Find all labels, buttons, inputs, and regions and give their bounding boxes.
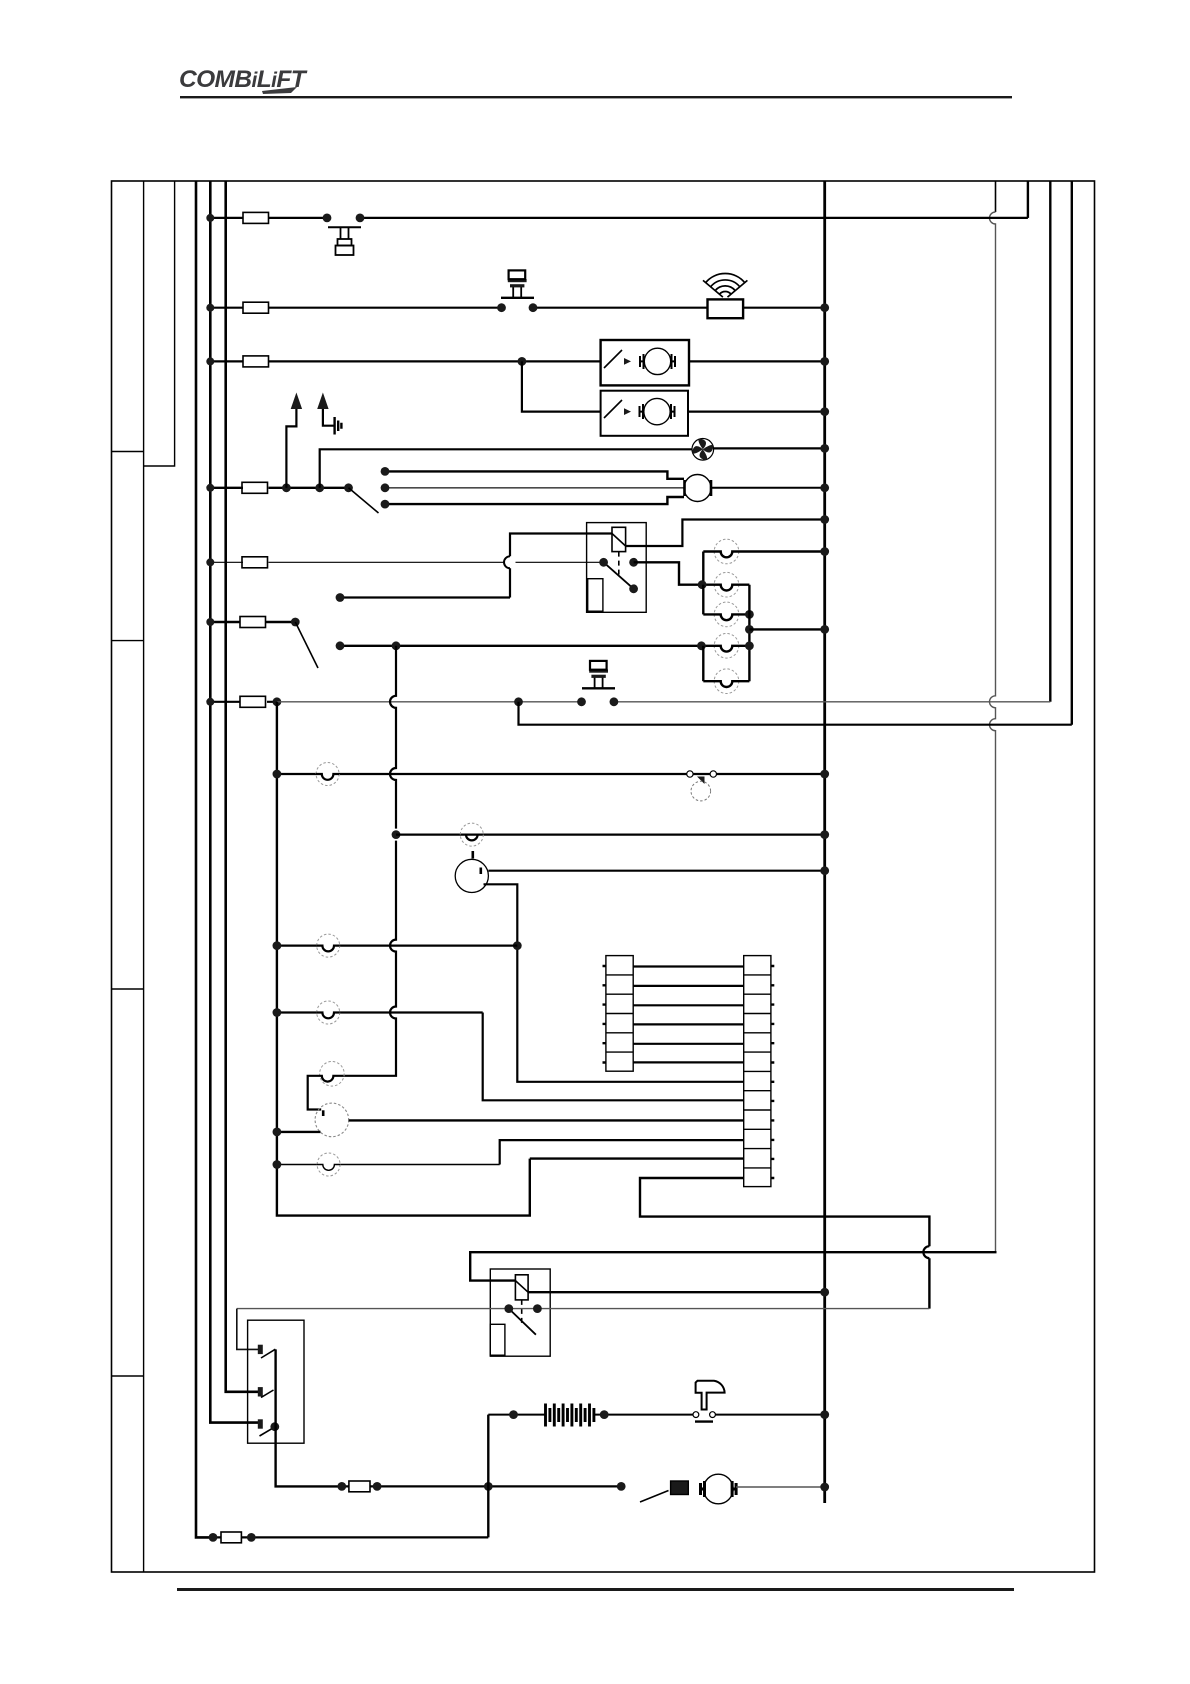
fuse F3 bbox=[243, 356, 269, 367]
wire blower to bus bbox=[712, 487, 825, 489]
node row3-branch bbox=[518, 357, 527, 366]
hop K1 feed over rowF bbox=[504, 556, 510, 568]
main right bus x=824 bbox=[823, 181, 826, 1503]
node M5-bus bbox=[820, 866, 829, 875]
wire row3 y=361 bbox=[210, 360, 824, 362]
node row2-bus-right bbox=[820, 303, 829, 312]
starter motor M6 bbox=[701, 1474, 737, 1504]
node row2-a bbox=[497, 303, 506, 312]
fuse F4 bbox=[242, 482, 268, 493]
node speed1 bbox=[381, 467, 390, 476]
wire glow plug row y=1414 bbox=[488, 1414, 824, 1416]
node K1-com bbox=[599, 558, 608, 567]
blower switch blade rowE bbox=[349, 488, 379, 513]
right riser x=1050 (row H) bbox=[1049, 181, 1051, 702]
wire glow row y=1486 bbox=[342, 1485, 621, 1487]
wire w11 bbox=[530, 1157, 744, 1159]
starter solenoid bbox=[671, 1481, 689, 1495]
node row1-b bbox=[356, 214, 365, 223]
fuse F6 bbox=[240, 617, 266, 628]
node K2-bus bbox=[820, 1288, 829, 1297]
battery feed arrow 1 bbox=[286, 394, 301, 488]
fan M3 bbox=[692, 439, 714, 461]
left margin rung 3 bbox=[112, 988, 144, 990]
node glowplug-b bbox=[600, 1410, 609, 1419]
lamp chain right tie bbox=[748, 585, 750, 682]
gray contact line 1308 bbox=[237, 1308, 930, 1310]
lamp L3 bbox=[703, 602, 749, 627]
node keyswitch-bus bbox=[820, 1410, 829, 1419]
wire row1 y=218 bbox=[210, 217, 1028, 219]
node starter-bus bbox=[820, 1483, 829, 1492]
wire rowH y=702 bbox=[210, 701, 277, 703]
relay K1 coil bbox=[612, 527, 626, 551]
connector X1 right housing bbox=[744, 956, 775, 1187]
wire fan to bus bbox=[714, 447, 825, 449]
relay K2 aux block bbox=[490, 1324, 505, 1355]
node f9-a bbox=[209, 1533, 218, 1542]
wire rowF y=562 (thin) bbox=[210, 561, 603, 563]
relay K1 box bbox=[587, 523, 647, 613]
battery feed arrow 2 with chassis ground bbox=[318, 394, 335, 426]
node starter-a bbox=[617, 1482, 626, 1491]
gray return line x=995 with hops bbox=[995, 181, 997, 212]
wire w12 Z-path bbox=[640, 1178, 929, 1309]
lamp L2 bbox=[702, 572, 749, 597]
relay K1 aux block bbox=[588, 579, 603, 612]
wire rowG y=622 bbox=[210, 621, 295, 623]
wire rowH gray bbox=[277, 701, 1050, 703]
bottom rule bbox=[177, 1588, 1014, 1591]
node L4-right bbox=[745, 641, 754, 650]
node L3-right bbox=[745, 610, 754, 619]
key switch S5 bbox=[693, 1381, 725, 1422]
blower speed line 2 bbox=[385, 487, 684, 489]
lamp L1 bbox=[703, 539, 824, 564]
receiver antenna arcs bbox=[703, 274, 747, 298]
wire rowI y=725 bbox=[519, 702, 1072, 725]
node rowG-a bbox=[291, 618, 300, 627]
node glow-b bbox=[373, 1482, 382, 1491]
node rowE-b bbox=[315, 483, 324, 492]
wire row1013 bbox=[277, 1011, 483, 1013]
node row1132-left bbox=[273, 1128, 282, 1137]
wire row1164 to connector (w10) bbox=[500, 1140, 744, 1164]
wire row 646 bbox=[340, 645, 701, 647]
fuse F2 bbox=[243, 302, 269, 313]
relay K2 dashed link bbox=[521, 1300, 523, 1325]
node blower-bus bbox=[820, 483, 829, 492]
lamp L10 bbox=[316, 1062, 344, 1087]
blower speed line 3 bbox=[385, 497, 684, 504]
wire row774 bbox=[277, 773, 825, 775]
oil pressure sender B1 bbox=[687, 771, 717, 801]
lamp L11 bbox=[317, 1153, 340, 1176]
node row945-left bbox=[273, 941, 282, 950]
wire L1 to L2 left tie bbox=[702, 552, 704, 585]
indicator column x=277 bbox=[277, 702, 530, 1216]
node glowplug-a bbox=[509, 1410, 518, 1419]
wire K2 coil to bus bbox=[528, 1291, 825, 1293]
wire row2 y=308 bbox=[210, 307, 824, 309]
S4 contact 3 bbox=[258, 1419, 275, 1436]
relay K2 coil bbox=[515, 1275, 528, 1300]
left margin rung 1 bbox=[112, 451, 144, 453]
lamp L5 bbox=[703, 669, 749, 694]
node row774-bus bbox=[820, 770, 829, 779]
relay K2 contact blade bbox=[509, 1309, 536, 1335]
lamp L8 bbox=[317, 934, 340, 957]
radio receiver U1 bbox=[708, 299, 744, 318]
push button S3 (plunger up) bbox=[582, 661, 615, 688]
flasher unit E1 bbox=[315, 1103, 349, 1137]
node col394 row835 bbox=[392, 830, 401, 839]
sense column x=394 with hops bbox=[356, 646, 397, 1076]
node rowH-bus bbox=[206, 698, 214, 706]
node chain-bus bbox=[820, 625, 829, 634]
wire starter to bus bbox=[736, 1486, 825, 1488]
node K1-bus bbox=[820, 515, 829, 524]
node L2-left bbox=[698, 580, 707, 589]
node coil-feed start bbox=[336, 593, 345, 602]
wire 1253 feed bbox=[470, 1252, 996, 1280]
node glow-junction bbox=[484, 1482, 493, 1491]
node chain-tap bbox=[745, 625, 754, 634]
wire bottom fuse row y=1537 bbox=[213, 1536, 488, 1538]
node row1-a bbox=[323, 214, 332, 223]
starter switch blade bbox=[640, 1491, 669, 1503]
node row3-bus bbox=[206, 357, 214, 365]
wire 1308 to switch contact 1 bbox=[237, 1309, 259, 1350]
supply bus A x=196 bbox=[196, 181, 213, 1537]
node rowH-c bbox=[577, 697, 586, 706]
node row4-bus-right bbox=[820, 407, 829, 416]
node row2-b bbox=[529, 303, 538, 312]
lamp L7 bbox=[460, 823, 483, 846]
wire row1132 bbox=[277, 1131, 321, 1133]
node speed2 bbox=[381, 483, 390, 492]
wire L4-L5 left tie bbox=[702, 646, 704, 681]
fuse F8 bbox=[349, 1481, 370, 1492]
glow plug element R1 bbox=[546, 1404, 594, 1427]
left margin rung 4 bbox=[112, 1375, 144, 1377]
connector X1 left housing bbox=[603, 956, 634, 1072]
lamp L4 bbox=[701, 634, 749, 659]
node row646-start bbox=[336, 641, 345, 650]
supply bus C x=226 bbox=[226, 181, 259, 1392]
node L1-bus bbox=[820, 547, 829, 556]
node row3-bus-right bbox=[820, 357, 829, 366]
node rowE-c bbox=[344, 483, 353, 492]
wiper motor box M2 bbox=[601, 391, 688, 436]
relay K1 contact blade bbox=[604, 562, 634, 589]
node col517 row945 bbox=[513, 941, 522, 950]
wire M2 to bus bbox=[688, 411, 825, 413]
node row1-bus bbox=[206, 214, 214, 222]
node rowF-bus bbox=[206, 558, 214, 566]
right riser x=1028 (row 1) bbox=[1027, 181, 1029, 218]
switch blade rowG bbox=[295, 622, 318, 668]
lamp L6 bbox=[316, 763, 339, 786]
push button S1 (plunger down) bbox=[328, 227, 361, 255]
fan feed riser bbox=[320, 449, 693, 488]
node row835-bus bbox=[820, 830, 829, 839]
node glow-a bbox=[337, 1482, 346, 1491]
node row1164-left bbox=[273, 1160, 282, 1169]
node L4-left bbox=[697, 641, 706, 650]
node rowH-tap bbox=[514, 697, 523, 706]
wire flasher out (w9) bbox=[349, 1119, 744, 1121]
ground bars bbox=[335, 417, 342, 435]
frame border bbox=[112, 181, 1095, 1572]
node row774-left bbox=[273, 770, 282, 779]
right riser x=1072 (row I) bbox=[1071, 181, 1073, 725]
blower speed line 1 bbox=[385, 471, 684, 478]
fuse F5 bbox=[242, 557, 268, 568]
lamp L9 bbox=[317, 1001, 340, 1024]
hop w12 over wire1253 bbox=[923, 1246, 929, 1258]
wire row835 bbox=[396, 833, 825, 835]
wiper motor box M1 bbox=[601, 340, 689, 385]
wire chain tap to bus bbox=[749, 628, 824, 630]
left margin rung 2 bbox=[112, 640, 144, 642]
node row1013-left bbox=[273, 1008, 282, 1017]
heater motor M5 bbox=[455, 851, 488, 893]
node rowE-bus bbox=[206, 484, 214, 492]
supply bus B x=210 bbox=[210, 181, 258, 1423]
fuse F7 bbox=[240, 696, 266, 707]
wire row945 bbox=[277, 944, 517, 946]
header rule bbox=[180, 96, 1012, 98]
node row2-bus bbox=[206, 304, 214, 312]
wire row1164 bbox=[277, 1164, 500, 1166]
branch wire to wiper box 2 bbox=[522, 361, 601, 411]
S4 contact 1 bbox=[258, 1345, 276, 1358]
wire row1013 to connector bbox=[483, 1013, 744, 1101]
node f9-b bbox=[247, 1533, 256, 1542]
node rowH-d bbox=[610, 697, 619, 706]
fuse F9 bbox=[221, 1532, 241, 1543]
node rowG-bus bbox=[206, 618, 214, 626]
node K1-no bbox=[629, 558, 638, 567]
wire K1 contact to lamp2 bbox=[634, 562, 703, 584]
blower motor M4 bbox=[684, 475, 711, 502]
connector jumper wires bbox=[633, 967, 744, 1063]
branch lamp row 1076 bbox=[308, 1076, 356, 1110]
node S4-common bbox=[270, 1422, 279, 1431]
node row646-col394 bbox=[392, 641, 401, 650]
node K2-no bbox=[533, 1304, 542, 1313]
node K1-blade-end bbox=[629, 584, 638, 593]
relay K2 box bbox=[490, 1269, 550, 1356]
left margin column 2 bbox=[143, 181, 145, 1572]
push button S2 (plunger up) bbox=[501, 270, 534, 297]
logo swoosh bbox=[262, 87, 297, 94]
node rowH-col277 bbox=[273, 697, 282, 706]
node fan-bus bbox=[820, 444, 829, 453]
node speed3 bbox=[381, 500, 390, 509]
relay K1 coil feed bbox=[340, 534, 612, 598]
fuse F1 bbox=[243, 212, 269, 223]
wire M5 loop down bbox=[484, 884, 744, 1082]
ignition switch box S4 bbox=[248, 1320, 304, 1443]
relay K1 dashed link bbox=[618, 552, 620, 578]
node rowE-a bbox=[282, 483, 291, 492]
glow plug riser bbox=[487, 1415, 489, 1538]
wire rowE y=488 bbox=[210, 487, 348, 489]
wire L2-L3 left tie bbox=[702, 585, 704, 615]
wire K1 coil to bus bbox=[626, 520, 825, 547]
logo COMBiLiFT bbox=[179, 66, 305, 94]
left margin column 3 bbox=[144, 181, 175, 466]
node K2-com bbox=[504, 1304, 513, 1313]
S4 contact 2 bbox=[258, 1387, 274, 1397]
wire M5 to bus bbox=[488, 870, 824, 872]
S4 common rail bbox=[276, 1349, 342, 1486]
